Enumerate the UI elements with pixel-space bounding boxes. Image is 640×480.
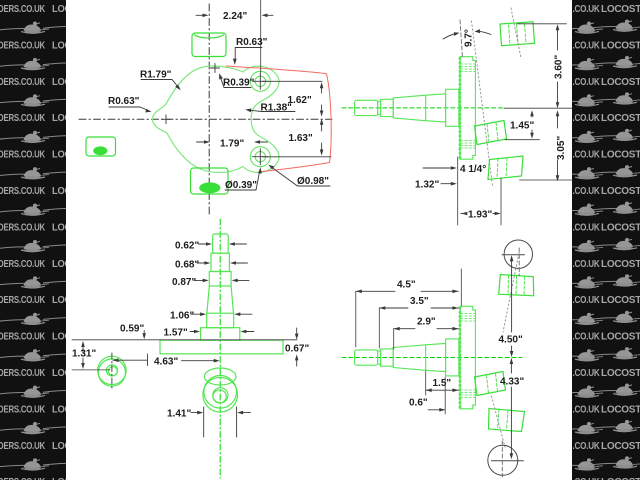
dimension 1.31 [72,341,110,370]
bottom ball joint circle [488,445,518,475]
dimension 4.5 [356,290,459,348]
svg-text:4.33": 4.33" [500,377,524,388]
kingpin axis dotted lower [492,396,506,447]
lug extension line [500,178,502,225]
dimension 0.59 [142,331,146,340]
svg-text:0.87": 0.87" [172,277,196,288]
kingpin axis dotted [472,21,493,186]
svg-text:1.62": 1.62" [288,95,312,106]
dimension 1.41 [191,407,251,437]
vertical centerline green [219,219,221,478]
svg-text:1.06": 1.06" [170,311,194,322]
cross mark left tip [162,115,171,124]
steering arm red outline [226,66,331,172]
plate bottom extension line [457,157,459,225]
svg-text:R0.39": R0.39" [223,78,255,89]
svg-text:1.45": 1.45" [510,121,534,132]
dimension 3.60 [517,24,567,109]
vertical centerline [208,4,210,217]
note 4 1/4 [423,166,457,170]
dimension R1.38 [245,109,295,113]
svg-text:1.79": 1.79" [220,139,244,150]
top caliper lug [499,275,534,296]
kingpin axis dotted upper [503,253,519,332]
svg-text:R0.63": R0.63" [236,37,268,48]
lower bolt hole [250,147,270,167]
svg-text:9.7°: 9.7° [464,29,475,47]
svg-text:1.31": 1.31" [72,349,96,360]
svg-text:1.57": 1.57" [164,328,188,339]
dimension 1.32 [441,182,457,186]
dimension 0.67 [295,328,299,366]
dimension 0.87 [194,279,249,283]
svg-text:4.5": 4.5" [397,280,416,291]
centerline extension black [504,107,572,109]
dimension dia 0.98 [268,165,330,186]
dimension 3.5 [379,306,458,348]
spindle shaft [355,339,459,376]
angle 9.7 arcs [443,29,491,39]
spindle stem [201,234,240,340]
right watermark strip [551,0,640,480]
horizontal centerline green [342,357,522,359]
ball joint centerline [111,353,113,389]
dimension 1.5 [426,371,459,395]
svg-text:0.59": 0.59" [120,324,144,335]
svg-text:3.60": 3.60" [554,55,565,79]
bottom circle chord [492,460,524,462]
svg-text:2.24": 2.24" [223,11,247,22]
bottom boss cylinder [191,168,229,194]
svg-text:R0.63": R0.63" [108,96,140,107]
dimension 1.57 [190,330,254,334]
horizontal centerline green [342,107,504,109]
svg-text:3.05": 3.05" [556,136,567,160]
dimension 3.05 [520,110,573,181]
top boss cylinder [192,33,226,57]
hub cylinder arcs [203,368,238,412]
dimension 4.50 [510,255,514,357]
bottom caliper lug [489,409,525,432]
spindle shaft [355,89,459,126]
extension line up from plate [460,269,462,306]
bottom-right side view [342,240,534,477]
horizontal centerline [79,118,332,120]
top-right side view [342,8,572,225]
caliper plate [460,306,475,409]
svg-text:0.6": 0.6" [409,398,428,409]
top lug axis dotted [511,8,521,58]
dimension 0.62 [199,242,247,246]
dimension 0.68 [197,261,248,265]
svg-text:3.5": 3.5" [410,296,429,307]
top ball joint circle [504,240,532,268]
plate vertical dashed extension [460,20,463,58]
top caliper lug [500,22,535,46]
left boss cylinder [86,137,116,156]
dimension 1.79 [197,140,268,144]
svg-text:4 1/4°: 4 1/4° [460,164,486,175]
svg-text:2.9": 2.9" [417,317,436,328]
bottom caliper lug [488,156,523,180]
dimension R0.63 top [233,48,262,66]
svg-text:1.41": 1.41" [167,409,191,420]
dimension R0.63 left [109,107,152,112]
bottom-left front view [72,219,309,478]
left watermark strip [0,0,95,480]
dimension 2.24 [196,0,273,73]
dimension 1.06 [191,312,252,316]
svg-text:0.68": 0.68" [175,260,199,271]
svg-text:4.50": 4.50" [499,335,523,346]
svg-text:0.62": 0.62" [175,241,199,252]
long extension line [72,339,297,341]
top circle axis dashes [518,248,520,276]
plate serrated edge [459,58,462,158]
plate hidden hole lines top [461,64,476,148]
top-left plan view [79,0,332,217]
caliper plate [460,57,475,160]
svg-text:0.67": 0.67" [285,344,309,355]
upright body outline [153,66,280,172]
attached lug [475,372,506,396]
dimension 1.45 [505,110,540,139]
dimension 4.33 [510,358,514,459]
svg-text:R1.79": R1.79" [140,70,172,81]
flange plate [160,340,283,354]
svg-text:4.63": 4.63" [154,357,178,368]
dimension 4.63 [113,354,220,366]
svg-text:1.93": 1.93" [468,210,492,221]
dimension 1.93 [461,212,501,216]
dimension 1.62 [262,81,323,116]
svg-text:Ø0.39": Ø0.39" [225,180,257,191]
dimension dia 0.39 [225,167,262,190]
ball joint boss circles [98,356,126,386]
dimension 0.6 [428,377,445,414]
top circle chord [502,254,525,256]
svg-text:1.32": 1.32" [415,180,439,191]
dimension R0.39 [219,73,251,87]
plate serrated edge [459,308,462,408]
attached lug [475,121,507,145]
plate hidden hole lines [461,314,476,398]
dimension 1.63 [262,119,331,157]
cross mark top [211,64,220,73]
dimension R1.79 [141,80,181,91]
svg-text:Ø0.98": Ø0.98" [297,176,329,187]
svg-text:1.63": 1.63" [289,133,313,144]
bottom circle centerline [501,441,503,477]
svg-text:1.5": 1.5" [433,378,452,389]
upper bolt hole [250,71,270,91]
dimension 2.9 [394,327,459,349]
